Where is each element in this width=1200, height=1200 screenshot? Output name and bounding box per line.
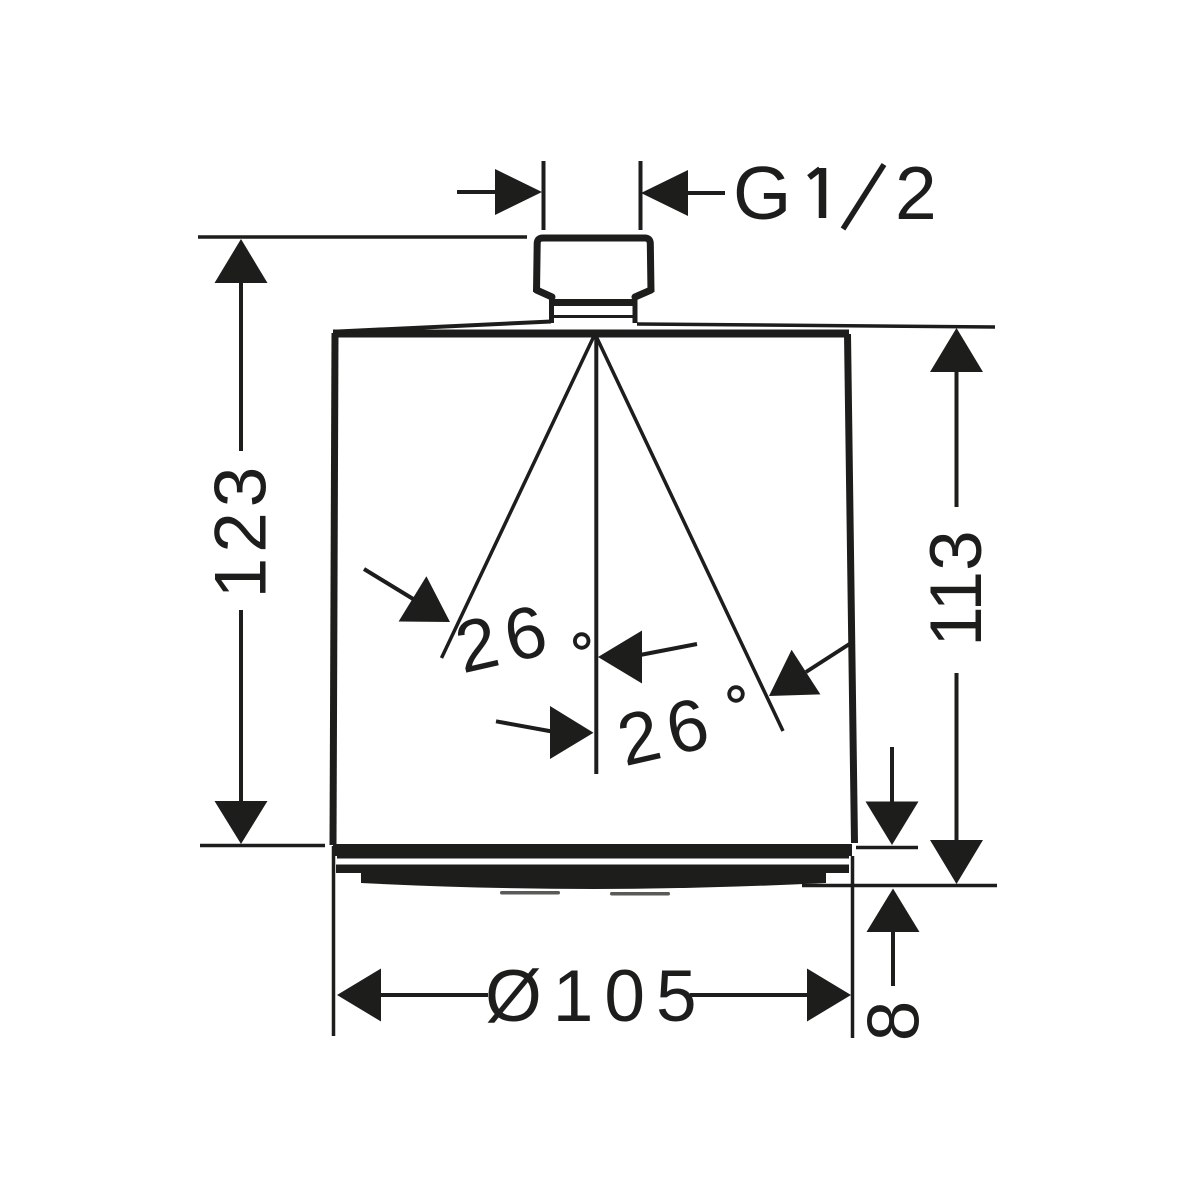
dim 8 extension line	[856, 846, 918, 850]
right spray leader line	[806, 643, 851, 672]
spray face disc	[361, 873, 826, 889]
label 1 of G1/2 custom glyph stem	[819, 168, 827, 218]
G1/2 left arrow leader	[457, 190, 499, 194]
body right wall	[848, 334, 855, 843]
right spray arrowhead	[769, 650, 820, 696]
collar left side	[549, 296, 554, 323]
dim 105 left arrowhead	[337, 969, 381, 1022]
lid slope right merging into 113 extension	[637, 324, 995, 327]
collar thin ring line	[550, 315, 637, 318]
collar right side	[633, 296, 638, 323]
sealing ring band	[336, 865, 849, 874]
dim 105 left line segment	[379, 993, 488, 997]
dim 123 upper line segment	[239, 281, 243, 451]
center spray axis line	[594, 337, 598, 774]
G1/2 connector nut outline	[537, 238, 652, 292]
right spray angle line	[596, 336, 783, 731]
dim 105 right line segment	[690, 993, 809, 997]
nut right chamfer	[635, 290, 651, 297]
dim 113 top arrowhead	[930, 328, 983, 372]
lid slope left	[338, 322, 551, 332]
angle 26 deg lower arrowhead	[550, 706, 594, 759]
dim 105 right arrowhead	[807, 969, 851, 1022]
angle 26 deg lower leader	[496, 721, 552, 731]
dim 123 bottom extension line	[200, 844, 325, 848]
svg-text:123: 123	[201, 462, 282, 599]
G1/2 left arrowhead	[495, 169, 542, 215]
collar top ring band	[550, 299, 637, 306]
dim 8 lower leader line	[891, 930, 895, 986]
dim 113 bottom extension line	[802, 884, 997, 888]
dim 8 down arrowhead	[866, 802, 919, 846]
svg-text:113: 113	[916, 530, 997, 646]
G1/2 left witness bar	[542, 161, 546, 230]
angle 26 deg upper leader	[640, 644, 697, 655]
dim 8 upper leader line	[890, 747, 894, 805]
dim 123 top arrowhead	[215, 239, 268, 283]
label 1 of G1/2 custom glyph flag	[809, 169, 820, 178]
svg-text:G: G	[733, 151, 791, 235]
dim 123 top extension line	[198, 235, 527, 239]
left spray angle line	[442, 336, 595, 658]
G1/2 right arrowhead	[641, 170, 688, 216]
label slash of G1/2	[843, 165, 884, 230]
degree ring upper	[575, 634, 589, 648]
dim 123 lower line segment	[239, 610, 243, 803]
svg-text:8: 8	[854, 1001, 935, 1042]
left spray leader line	[364, 569, 414, 600]
dim 113 bottom arrowhead	[930, 840, 983, 884]
G1/2 right arrow leader	[686, 191, 725, 195]
svg-text:2: 2	[895, 151, 937, 235]
dim 113 lower line segment	[955, 673, 959, 843]
dim 113 upper line segment	[955, 370, 959, 507]
dim 105 right extension line	[851, 856, 855, 1038]
dim 8 up arrowhead	[867, 889, 920, 933]
svg-text:Ø105: Ø105	[485, 956, 708, 1037]
dim 105 left extension line	[332, 846, 336, 1036]
G1/2 right witness bar	[639, 161, 643, 230]
body left wall	[333, 333, 335, 845]
degree ring lower	[729, 687, 743, 701]
bottom rim band	[333, 844, 852, 856]
rim lower thin line	[337, 856, 849, 859]
nut left chamfer	[537, 290, 553, 297]
left spray arrowhead	[399, 576, 450, 622]
spray nozzles	[500, 891, 670, 896]
shower head body top rim band	[333, 330, 849, 338]
dim 123 bottom arrowhead	[215, 801, 268, 844]
angle 26 deg upper arrowhead	[598, 631, 642, 684]
